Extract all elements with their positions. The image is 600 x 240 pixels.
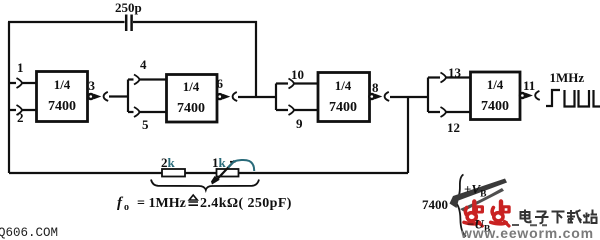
- svg-text:1: 1: [17, 60, 24, 75]
- svg-text:250p: 250p: [115, 0, 142, 15]
- connector plug pin11: [525, 93, 533, 99]
- power brace: [455, 175, 466, 237]
- capacitor C 250p: [126, 15, 131, 32]
- watermark dashes: [512, 224, 547, 226]
- svg-text:7400: 7400: [329, 100, 357, 115]
- svg-text:10: 10: [291, 67, 304, 82]
- teal annotation curve: [228, 160, 254, 171]
- wire left bus: [8, 22, 10, 173]
- gate U1 box: [37, 72, 88, 122]
- wire gate1 input pin2: [8, 109, 36, 111]
- svg-text:2: 2: [17, 110, 24, 125]
- wire feedback right vertical: [407, 97, 409, 173]
- gate U4 box: [471, 72, 521, 120]
- svg-text:2.4kΩ( 250pF): 2.4kΩ( 250pF): [200, 196, 292, 211]
- svg-text:12: 12: [447, 120, 460, 135]
- svg-text:3: 3: [89, 78, 96, 93]
- svg-text:o: o: [124, 202, 129, 213]
- svg-text:1k: 1k: [212, 155, 227, 170]
- resistor R2 1k variable: [217, 169, 239, 177]
- svg-text:13: 13: [448, 65, 462, 80]
- wire to pin10: [276, 82, 318, 84]
- connector socket pin10: [289, 79, 295, 89]
- wire feedback vertical: [255, 21, 257, 97]
- gate U2 box: [167, 75, 218, 123]
- svg-text:5: 5: [142, 117, 149, 132]
- connector plug pin3: [94, 94, 102, 100]
- wire bottom bus: [9, 172, 408, 174]
- svg-text:7400: 7400: [422, 197, 448, 212]
- wiper top tick: [230, 161, 236, 163]
- svg-text:1/4: 1/4: [335, 78, 352, 93]
- underbrace: [151, 180, 259, 191]
- watermark swoosh: [450, 179, 508, 209]
- wire top feedback: [8, 21, 257, 23]
- resistor R1 2k: [162, 169, 185, 177]
- wire gate1 input pin1: [8, 82, 36, 84]
- node split B: [275, 84, 277, 111]
- svg-text:4: 4: [140, 57, 147, 72]
- wire gate2 out to split: [238, 96, 276, 98]
- svg-text:7400: 7400: [177, 101, 205, 116]
- svg-text:1/4: 1/4: [487, 77, 504, 92]
- node split A: [127, 80, 129, 113]
- output bubble pin3: [88, 94, 93, 99]
- wire to pin13: [428, 76, 470, 78]
- watermark CJK zai: [567, 210, 582, 223]
- output bubble pin6: [217, 94, 222, 99]
- svg-text:9: 9: [296, 116, 303, 131]
- node split C: [427, 78, 429, 113]
- svg-text:7400: 7400: [48, 99, 76, 114]
- wire to pin12: [428, 111, 470, 113]
- connector socket pin9: [289, 105, 295, 115]
- corresponds symbol: [189, 195, 199, 205]
- wire to pin9: [276, 109, 318, 111]
- connector socket pin4: [134, 75, 140, 85]
- watermark red bug 2: [491, 202, 509, 227]
- gate U3 box: [318, 73, 370, 122]
- watermark CJK xia: [552, 212, 565, 224]
- watermark CJK zhan: [583, 210, 597, 224]
- svg-text:1MHz: 1MHz: [550, 70, 585, 85]
- wire gate3 out to split: [390, 96, 428, 98]
- connector socket pin1: [17, 78, 23, 88]
- formula text: [117, 195, 292, 213]
- watermark CJK dianzi: [521, 210, 531, 223]
- waveform square wave: [546, 90, 600, 107]
- svg-text:1/4: 1/4: [54, 77, 71, 92]
- connector plug pin6: [223, 94, 231, 100]
- watermark red bug 1: [464, 202, 482, 227]
- wire to pin4: [128, 78, 166, 80]
- svg-text:6: 6: [217, 76, 224, 91]
- output bubble pin11: [520, 93, 525, 98]
- connector plug pin8: [375, 94, 383, 100]
- connector socket pin13: [441, 73, 447, 83]
- svg-text:11: 11: [523, 78, 535, 93]
- wiper arrow of R2: [215, 161, 235, 182]
- connector socket pin12: [441, 107, 447, 117]
- svg-text:7400: 7400: [481, 99, 509, 114]
- svg-text:www.eeworm.com: www.eeworm.com: [460, 225, 594, 240]
- svg-text:1/4: 1/4: [183, 79, 200, 94]
- svg-text:= 1MHz: = 1MHz: [137, 196, 186, 211]
- watermark CJK zi: [535, 212, 549, 224]
- svg-text:2k: 2k: [161, 155, 176, 170]
- wire gate1 out to split: [109, 95, 128, 97]
- connector socket pin2: [17, 105, 23, 115]
- svg-text:8: 8: [372, 80, 379, 95]
- wire to pin5: [128, 111, 166, 113]
- output bubble pin8: [369, 94, 374, 99]
- svg-text:f: f: [117, 195, 124, 211]
- svg-text:Q606.COM: Q606.COM: [0, 226, 58, 240]
- connector socket pin5: [134, 107, 140, 117]
